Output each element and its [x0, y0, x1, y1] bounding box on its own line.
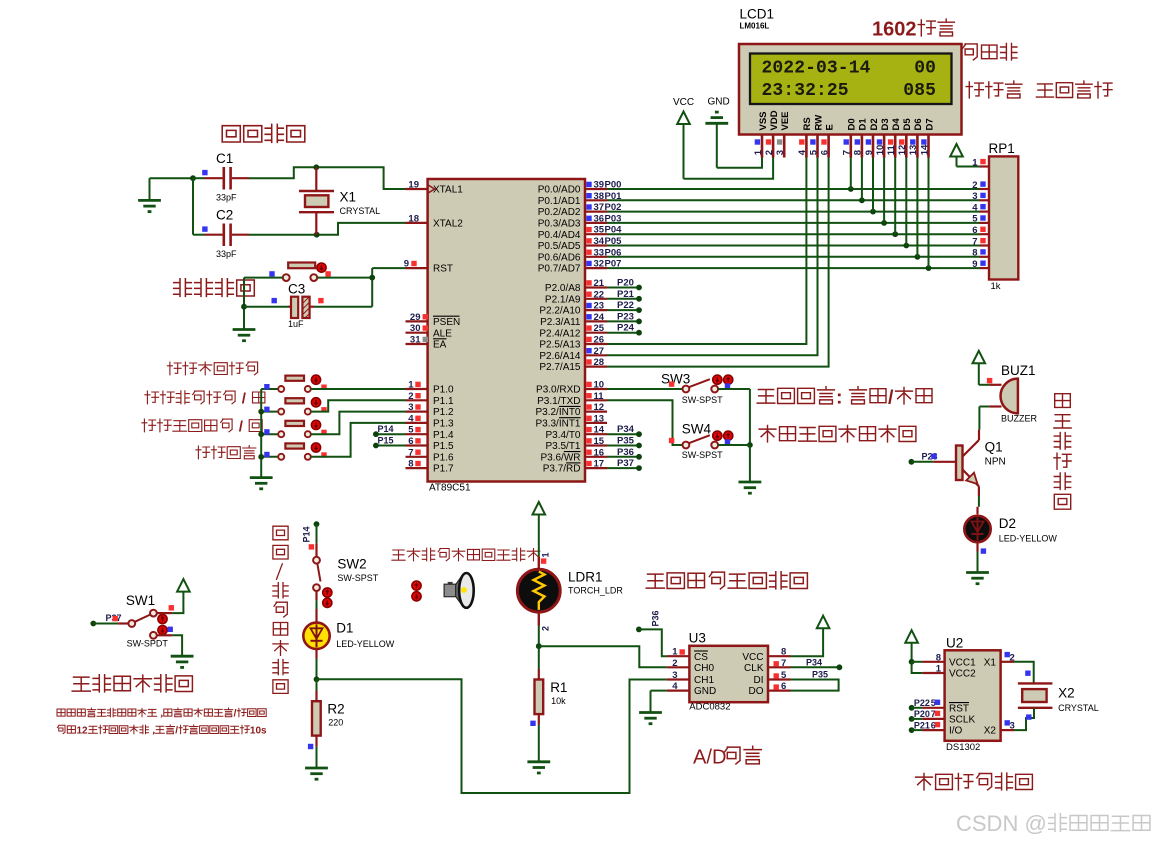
svg-text:C3: C3 [288, 282, 305, 297]
title 复位电路 [174, 279, 192, 297]
svg-text:6: 6 [819, 150, 830, 155]
key bus vertical wire [260, 389, 262, 478]
svg-text:14: 14 [594, 425, 605, 436]
title 手动模式下开关灯 [759, 426, 776, 442]
svg-text:31: 31 [410, 335, 421, 346]
svg-text:LM016L: LM016L [740, 22, 770, 31]
svg-text:1: 1 [408, 380, 414, 391]
svg-text:RST: RST [949, 703, 969, 714]
net labels P22 P20 P21 at U2 [909, 705, 915, 711]
svg-text:C2: C2 [216, 208, 233, 223]
svg-text:3: 3 [672, 670, 677, 681]
reset push button [288, 263, 315, 269]
IC U3 ADC0832 body [689, 646, 768, 702]
IC U1 AT89C51 body [428, 179, 585, 482]
svg-text:P34: P34 [806, 657, 822, 667]
svg-text:4: 4 [408, 413, 414, 424]
svg-text:P2.7/A15: P2.7/A15 [539, 362, 581, 373]
wire D1 to R2 junction [315, 649, 317, 658]
wire reset button left to ground bus [244, 277, 283, 279]
svg-text:P3.0/RXD: P3.0/RXD [536, 385, 580, 396]
wire U3 VCC to arrow [791, 628, 824, 656]
svg-text:7: 7 [972, 236, 977, 247]
wire P2.7 to LCD E [607, 158, 829, 367]
svg-text:4: 4 [972, 202, 978, 213]
svg-text:P0.6/AD6: P0.6/AD6 [538, 252, 581, 263]
svg-text:7: 7 [408, 447, 413, 458]
title 路灯故障检测电路 vertical [273, 526, 288, 540]
push button KEY4 [261, 456, 278, 458]
wire SW3 to ground bus [718, 388, 750, 390]
wire VCC to LCD VDD [684, 158, 774, 179]
svg-text:2: 2 [672, 658, 677, 669]
svg-text:1: 1 [753, 149, 764, 155]
wire GND to LCD VSS [717, 158, 762, 168]
svg-text:P0.1/AD1: P0.1/AD1 [538, 196, 581, 207]
net label P14 wire [376, 433, 406, 435]
svg-text:9: 9 [864, 150, 875, 155]
svg-text:1: 1 [541, 552, 551, 557]
wire KEY1 to P1.0 [311, 388, 406, 390]
svg-text:13: 13 [594, 413, 605, 424]
capacitor C3 1uF [244, 306, 288, 308]
U1 XTAL1 clock chevron [428, 185, 435, 193]
svg-text:P1.1: P1.1 [433, 396, 454, 407]
svg-text:X2: X2 [984, 726, 997, 737]
resistor R2 220 [316, 679, 318, 690]
ground SW3/SW4 [739, 481, 762, 484]
svg-text:11: 11 [886, 145, 897, 156]
svg-text:12: 12 [77, 726, 89, 737]
resistor pack RP1 body [989, 156, 1018, 279]
svg-text:SW-SPDT: SW-SPDT [127, 639, 169, 649]
svg-text:GND: GND [694, 686, 716, 697]
U1 left pin stubs [406, 188, 428, 190]
title 设置系统时间 [167, 362, 181, 375]
svg-text:P14: P14 [378, 424, 394, 434]
svg-text:CSDN @: CSDN @ [956, 811, 1047, 836]
junction dots LCD data to P0 rows [848, 186, 854, 192]
svg-text:P1.5: P1.5 [433, 441, 454, 452]
svg-text:U3: U3 [689, 631, 706, 646]
note text line1 [57, 709, 65, 716]
svg-text:XTAL2: XTAL2 [433, 219, 463, 230]
svg-text:P1.4: P1.4 [433, 430, 454, 441]
svg-text:15: 15 [594, 436, 605, 447]
svg-text:Q1: Q1 [985, 440, 1003, 455]
capacitor C1 [193, 177, 205, 179]
svg-text:VEE: VEE [780, 111, 791, 130]
svg-text:VSS: VSS [758, 111, 769, 130]
svg-text:17: 17 [594, 459, 605, 470]
svg-text:6: 6 [408, 436, 413, 447]
wire P3.1 to SW4 [607, 400, 683, 445]
svg-text:10: 10 [594, 380, 605, 391]
svg-text:13: 13 [908, 145, 919, 156]
svg-text:VDD: VDD [769, 110, 780, 130]
svg-text:16: 16 [594, 447, 605, 458]
svg-text:22: 22 [594, 289, 605, 300]
net label P36 wire to U3 CS [636, 627, 642, 633]
wire SW2 to D1 [315, 591, 317, 600]
svg-text:D1: D1 [336, 621, 353, 636]
svg-text:AT89C51: AT89C51 [429, 483, 471, 494]
svg-text:P0.7/AD7: P0.7/AD7 [538, 264, 581, 275]
svg-text:D2: D2 [999, 516, 1016, 531]
wire U3 CLK net P34 [791, 666, 840, 668]
node X1 bottom junction [314, 232, 320, 238]
svg-text:37: 37 [594, 202, 605, 213]
svg-text:X2: X2 [1058, 686, 1075, 701]
VCC at U2 [905, 630, 918, 643]
svg-text:P1.0: P1.0 [433, 385, 454, 396]
svg-text:P2.6/A14: P2.6/A14 [539, 351, 581, 362]
wire Q1 emitter to D2 [978, 496, 980, 507]
wire button right to RST [317, 277, 372, 279]
wire KEY2 to P1.1 [311, 400, 406, 411]
svg-text:PSEN: PSEN [433, 317, 460, 328]
svg-text:P2.5/A13: P2.5/A13 [539, 340, 581, 351]
svg-text:085: 085 [903, 81, 936, 101]
svg-text:RS: RS [802, 117, 813, 130]
svg-text:27: 27 [594, 346, 605, 357]
svg-text:CRYSTAL: CRYSTAL [1058, 703, 1099, 713]
title 点击箭头移动灯泡距离 [392, 550, 405, 560]
svg-text:ADC0832: ADC0832 [689, 702, 730, 713]
svg-text:R2: R2 [327, 702, 344, 717]
svg-text:CH1: CH1 [694, 675, 714, 686]
svg-text:P2.2/A10: P2.2/A10 [539, 306, 581, 317]
crystal X2 [1014, 662, 1034, 684]
VCC at buzzer [973, 351, 986, 364]
svg-text:35: 35 [594, 225, 605, 236]
switch SW2 SW-SPST vertical [316, 524, 318, 543]
svg-text:10k: 10k [551, 696, 566, 706]
svg-text:P3.2/INT0: P3.2/INT0 [535, 407, 580, 418]
svg-text:LED-YELLOW: LED-YELLOW [336, 639, 395, 649]
transistor Q1 NPN [978, 430, 980, 440]
svg-text:P0.0/AD0: P0.0/AD0 [538, 185, 581, 196]
title 年月日 [963, 44, 978, 60]
svg-text:P1.2: P1.2 [433, 407, 454, 418]
svg-text:P3.4/T0: P3.4/T0 [545, 430, 580, 441]
LCD screen [750, 54, 952, 105]
title 时分秒 光照强度 [966, 82, 983, 98]
LDR1 TORCH_LDR [538, 556, 540, 568]
svg-text:SW-SPST: SW-SPST [337, 573, 378, 583]
crystal X1 [315, 167, 317, 191]
LCD pin stubs [761, 135, 764, 158]
svg-text:GND: GND [708, 97, 730, 108]
LDR pin2 wire [538, 612, 540, 625]
svg-text:P0.5/AD5: P0.5/AD5 [538, 241, 581, 252]
svg-text:D6: D6 [913, 118, 924, 130]
svg-text:21: 21 [594, 278, 605, 289]
note text line2 [57, 725, 65, 733]
svg-text:10s: 10s [250, 726, 267, 737]
svg-text:P20: P20 [914, 709, 930, 719]
LCD data verticals D0-D7 [850, 158, 852, 190]
net label P15 wire [376, 445, 406, 447]
svg-text:VCC: VCC [742, 652, 763, 663]
title 系统时间电路 [916, 774, 933, 790]
ground R2 [305, 767, 328, 770]
svg-text:38: 38 [594, 191, 605, 202]
U3 pin stubs [667, 655, 690, 657]
svg-text:SW-SPST: SW-SPST [682, 395, 723, 405]
ground U3 [639, 711, 662, 714]
svg-text:P35: P35 [812, 669, 828, 679]
svg-text:10: 10 [875, 145, 886, 156]
svg-text:BUZ1: BUZ1 [1001, 363, 1036, 378]
svg-text:3: 3 [775, 150, 786, 155]
U1 right pin numbers [586, 182, 591, 187]
svg-text:25: 25 [594, 323, 605, 334]
svg-text:CS: CS [694, 652, 708, 663]
title 设置光照阈值/减 [142, 419, 156, 432]
wire VCC to U2 VCC1 VCC2 [909, 659, 915, 665]
svg-text:2: 2 [764, 150, 775, 155]
svg-text:R1: R1 [550, 680, 567, 695]
U2 pin stubs [922, 661, 944, 663]
svg-text:7: 7 [842, 150, 853, 155]
wire U3 DI-DO loop net P35 [791, 680, 839, 691]
svg-text:2: 2 [408, 391, 413, 402]
svg-text:11: 11 [594, 391, 605, 402]
wire LDR junction to U3 CH0 [539, 646, 667, 667]
svg-text::: : [836, 387, 843, 409]
wire P2.5 to LCD RS [607, 158, 806, 345]
svg-text:SW3: SW3 [661, 371, 690, 386]
title 起振电路 [222, 126, 240, 142]
push button KEY3 [261, 433, 278, 435]
svg-text:DO: DO [749, 686, 764, 697]
U1 right pin stubs [585, 188, 607, 190]
svg-text:P0.2/AD2: P0.2/AD2 [538, 207, 581, 218]
svg-text:18: 18 [408, 213, 419, 224]
svg-text:C1: C1 [216, 151, 233, 166]
svg-text:30: 30 [410, 323, 421, 334]
push button KEY1 [261, 388, 278, 390]
title 设置工作时间/加 [145, 391, 159, 404]
title 光电检测电路 [72, 677, 90, 691]
svg-text:34: 34 [594, 236, 605, 247]
wire D2 to ground [976, 542, 978, 551]
svg-text:D2: D2 [869, 118, 880, 130]
title 设置切换 [196, 446, 210, 459]
resistor R1 10k [538, 646, 540, 669]
torch actuator arrows [412, 581, 421, 590]
svg-text:P1.3: P1.3 [433, 419, 454, 430]
LED D2 LED-YELLOW [964, 516, 990, 542]
svg-text:33: 33 [594, 247, 605, 258]
wire buzzer to Q1 collector [978, 407, 980, 430]
svg-text:12: 12 [897, 145, 908, 156]
net label P14 top [314, 521, 320, 527]
svg-text:1: 1 [972, 157, 978, 168]
svg-text:LDR1: LDR1 [568, 570, 603, 585]
svg-text:ALE: ALE [433, 328, 452, 339]
svg-text:2022-03-14: 2022-03-14 [762, 59, 871, 79]
svg-text:TORCH_LDR: TORCH_LDR [568, 586, 623, 596]
svg-text:1602: 1602 [872, 19, 917, 41]
svg-text:LCD1: LCD1 [740, 7, 775, 22]
svg-text:1: 1 [672, 647, 678, 658]
title 光照阈值模拟电路 [646, 574, 664, 588]
svg-text:32: 32 [594, 259, 605, 270]
svg-text:36: 36 [594, 213, 605, 224]
ground SW1 [171, 655, 194, 658]
IC U2 DS1302 body [945, 650, 1001, 741]
node RST junction [369, 275, 375, 281]
svg-text:24: 24 [594, 312, 605, 323]
torch lamp icon [448, 582, 453, 586]
svg-text:8: 8 [853, 150, 864, 155]
svg-text:4: 4 [672, 681, 678, 692]
svg-text:6: 6 [972, 225, 977, 236]
svg-text:VCC2: VCC2 [949, 669, 976, 680]
ground D2 [966, 571, 989, 574]
svg-text:28: 28 [594, 357, 605, 368]
svg-text:SW4: SW4 [682, 422, 712, 437]
svg-text:D4: D4 [891, 118, 902, 131]
svg-text:19: 19 [408, 180, 419, 191]
svg-text:9: 9 [972, 259, 977, 270]
svg-text:26: 26 [594, 335, 605, 346]
svg-text:RST: RST [433, 264, 453, 275]
svg-text:5: 5 [808, 149, 819, 155]
node C1-C2 bus junction [190, 175, 196, 181]
svg-text:EA: EA [433, 340, 447, 351]
LCD LM016L body [739, 44, 962, 135]
svg-text:7: 7 [781, 658, 786, 669]
wire P00-P07 bus rows to RP1 [607, 188, 980, 190]
svg-text:P36: P36 [651, 610, 661, 626]
wire P2.6 to LCD RW [607, 158, 818, 356]
svg-text:P2.1/A9: P2.1/A9 [545, 294, 581, 305]
svg-text:D3: D3 [880, 118, 891, 130]
svg-text:/: / [888, 387, 894, 409]
svg-text:U2: U2 [946, 636, 963, 651]
ground key bus [250, 476, 273, 479]
svg-text:D1: D1 [858, 118, 869, 131]
svg-text:P22: P22 [914, 698, 930, 708]
VCC at LDR [533, 502, 546, 515]
svg-text:39: 39 [594, 180, 605, 191]
svg-text:RW: RW [813, 115, 824, 131]
svg-text:VCC: VCC [673, 97, 694, 108]
svg-text:E: E [824, 124, 835, 130]
svg-text:00: 00 [914, 59, 936, 79]
svg-text:NPN: NPN [985, 457, 1006, 468]
svg-text:5: 5 [781, 670, 787, 681]
svg-text:A/D: A/D [693, 747, 727, 769]
LCD pin numbers and state squares [755, 139, 760, 144]
buzzer BUZ1 [979, 384, 990, 386]
svg-text:P2.4/A12: P2.4/A12 [539, 328, 581, 339]
wire KEY3 to P1.2 [311, 412, 406, 435]
svg-text:33pF: 33pF [216, 249, 237, 259]
svg-text:P2.3/A11: P2.3/A11 [540, 317, 581, 328]
svg-text:D0: D0 [847, 118, 858, 130]
svg-text:BUZZER: BUZZER [1001, 414, 1038, 424]
svg-text:P21: P21 [914, 720, 930, 730]
ground reset [233, 328, 256, 331]
svg-text:P0.4/AD4: P0.4/AD4 [538, 230, 581, 241]
capacitor C2 [193, 234, 205, 236]
svg-text:2: 2 [541, 626, 551, 631]
svg-text:P3.7/RD: P3.7/RD [543, 464, 581, 475]
svg-text:VCC1: VCC1 [949, 657, 976, 668]
svg-text:6: 6 [781, 681, 786, 692]
wire P23 to Q1 base [909, 459, 915, 465]
node C3 left junction [241, 304, 247, 310]
svg-text:P2.0/A8: P2.0/A8 [545, 283, 581, 294]
VCC at RP1 pin1 [950, 144, 963, 157]
svg-text:X1: X1 [984, 657, 997, 668]
svg-text:220: 220 [328, 718, 343, 728]
node LDR-R1 junction [536, 643, 542, 649]
svg-text:SCLK: SCLK [949, 715, 975, 726]
svg-text:1uF: 1uF [288, 319, 304, 329]
svg-text:P1.6: P1.6 [433, 452, 454, 463]
svg-text:23: 23 [594, 301, 605, 312]
svg-text:8: 8 [972, 248, 977, 259]
svg-text:P3.5/T1: P3.5/T1 [545, 441, 580, 452]
wire SW1 top to VCC [157, 612, 173, 614]
node X1 top junction [313, 164, 319, 170]
svg-text:D5: D5 [902, 118, 913, 131]
svg-text:P3.6/WR: P3.6/WR [540, 452, 580, 463]
svg-text:DI: DI [754, 675, 764, 686]
svg-text:D7: D7 [924, 118, 935, 130]
svg-text:1: 1 [936, 664, 942, 675]
svg-text:XTAL1: XTAL1 [433, 185, 463, 196]
svg-text:P3.3/INT1: P3.3/INT1 [535, 419, 580, 430]
svg-text:23:32:25: 23:32:25 [762, 81, 849, 101]
svg-text:8: 8 [936, 652, 941, 663]
svg-text:X1: X1 [340, 190, 357, 205]
svg-text:8: 8 [408, 459, 413, 470]
ground R1 [527, 760, 550, 763]
svg-text:P1.7: P1.7 [433, 464, 454, 475]
ground at C1 left [150, 177, 194, 179]
wire U3 GND [651, 690, 667, 692]
svg-text:P14: P14 [302, 526, 312, 542]
node SW4 ground junction [747, 442, 753, 448]
node D1-R2 junction [314, 676, 320, 682]
svg-text:5: 5 [972, 214, 978, 225]
svg-text:LED-YELLOW: LED-YELLOW [999, 534, 1058, 544]
svg-text:CLK: CLK [744, 663, 764, 674]
svg-text:3: 3 [408, 402, 413, 413]
wire D1 junction to U3 CH1 [317, 679, 667, 793]
svg-text:1k: 1k [991, 281, 1001, 292]
svg-text:SW-SPST: SW-SPST [682, 450, 723, 460]
svg-text:8: 8 [781, 647, 786, 658]
svg-text:SW1: SW1 [126, 593, 155, 608]
svg-text:14: 14 [919, 144, 930, 155]
wire P3.0 to SW3 [607, 388, 683, 390]
svg-text:29: 29 [410, 312, 421, 323]
wire C2 to XTAL2 [249, 234, 317, 236]
svg-text:33pF: 33pF [216, 193, 237, 203]
LED D1 LED-YELLOW [303, 623, 329, 649]
push button KEY2 [261, 411, 278, 413]
svg-text:/: / [234, 709, 237, 720]
svg-text:12: 12 [594, 402, 605, 413]
svg-text:I/O: I/O [949, 726, 963, 737]
